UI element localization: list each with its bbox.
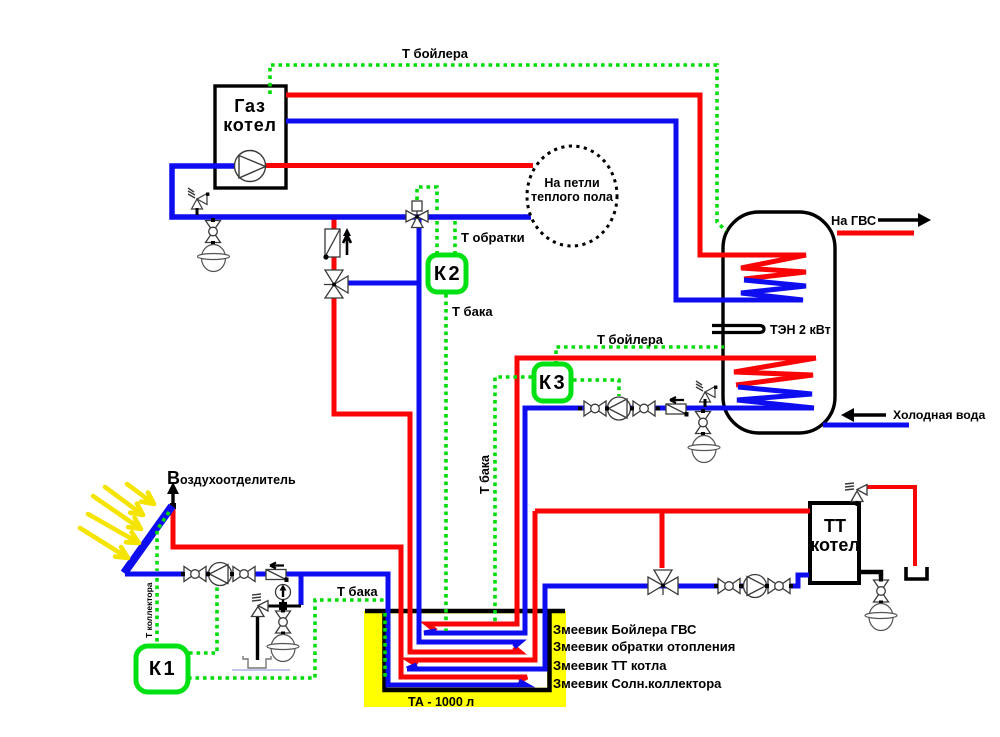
wire: TA coil 3 blue return up to TT boiler xyxy=(407,575,809,669)
wire: TT supply branch to 3-way valve xyxy=(660,511,665,568)
wire: DHW tank lower coil zigzag red xyxy=(734,358,816,385)
drain bracket near TT boiler xyxy=(906,567,927,579)
wire: tee down to solar safety group xyxy=(299,574,304,605)
svg-text:Т бака: Т бака xyxy=(337,584,378,599)
svg-text:Т бака: Т бака xyxy=(478,454,492,494)
sensor wire: K1 to TA tank (T baka) xyxy=(188,600,384,678)
wire: gas boiler heating supply (pump outlet) to floor-loops circle xyxy=(264,163,533,168)
svg-text:Газ: Газ xyxy=(234,96,266,116)
TA tank walls xyxy=(365,611,565,690)
svg-text:Змеевик Бойлера ГВС: Змеевик Бойлера ГВС xyxy=(553,622,697,637)
sensor wire: K2 to TA tank (T baka) xyxy=(444,294,448,621)
wire: TT supply down to TA coil 3 xyxy=(409,511,535,665)
svg-text:ТТ: ТТ xyxy=(824,516,846,536)
TA tank interior white xyxy=(387,614,547,688)
svg-text:котел: котел xyxy=(223,115,277,135)
TT boiler box xyxy=(810,503,859,583)
svg-text:Змеевик Солн.коллектора: Змеевик Солн.коллектора xyxy=(553,676,722,691)
svg-text:Змеевик ТТ котла: Змеевик ТТ котла xyxy=(553,658,667,673)
svg-text:На ГВС: На ГВС xyxy=(831,213,876,228)
svg-text:Т бака: Т бака xyxy=(452,304,493,319)
controller K3 xyxy=(534,364,571,401)
solar safety group: manometer xyxy=(268,585,301,611)
sun ray arrows xyxy=(80,484,154,558)
solar drain valve and expansion vessel EV2 xyxy=(276,609,291,636)
gate valve, TT pump P4, gate valve on TT return xyxy=(718,579,740,594)
wire: solar collector supply down to TA coil 4 xyxy=(173,507,527,681)
sensor wire: K3 left to TA tank (T baka) xyxy=(495,377,532,625)
sensor wire: T baka probe inside TA tank left wall xyxy=(383,613,387,677)
wire: solar return from collector through pump group to TA coil 4 xyxy=(125,574,526,685)
pump P1 inside gas boiler xyxy=(235,151,266,182)
sensor wire: T obratki pipe sensor to K2 xyxy=(453,221,457,254)
junction dots xyxy=(181,407,793,589)
TA buffer tank yellow body xyxy=(364,611,566,707)
wire: DHW tank lower coil supply down to TA coil 1 (red) xyxy=(427,358,816,631)
solar collector panel xyxy=(124,506,172,573)
wire: TA coil 3 zig xyxy=(407,665,417,669)
svg-text:котел: котел xyxy=(810,535,860,555)
sensor wire: K1 to solar pump xyxy=(189,586,217,653)
svg-text:Холодная вода: Холодная вода xyxy=(893,408,985,422)
DHW boiler tank xyxy=(723,212,835,433)
drain valve and expansion vessel EV1 below gas line xyxy=(206,218,221,245)
wire: tee to left 3-way valve xyxy=(347,281,419,286)
svg-text:К3: К3 xyxy=(539,372,567,394)
wire: heating main return line circle to gas boiler pump xyxy=(172,166,531,217)
TT boiler drain pipe to expansion vessel xyxy=(859,572,881,579)
mixing valve V1 on heating return (with actuator) xyxy=(406,201,428,228)
controller K2 xyxy=(428,255,466,292)
gas boiler Gaz kotel box xyxy=(215,86,286,188)
wire: DHW outlet (to GVS) xyxy=(837,231,914,236)
safety valve SV1 on gas boiler return xyxy=(188,188,209,209)
floor heating loops dotted circle xyxy=(527,146,617,246)
gate valve, boiler charge pump P3, gate valve, check valve on DHW coil line xyxy=(584,401,606,416)
sensor wire: K2 to mixing valve actuator xyxy=(417,187,437,212)
svg-text:ТЭН 2 кВт: ТЭН 2 кВт xyxy=(770,323,831,337)
filter/check valve on red drop xyxy=(323,228,351,260)
svg-text:Т коллектора: Т коллектора xyxy=(144,582,154,638)
svg-text:Т бойлера: Т бойлера xyxy=(597,332,664,347)
wire: DHW lower coil return through pump group down to TA coil 1 xyxy=(424,408,814,633)
3-way valve V3 on TT boiler return xyxy=(648,570,678,595)
svg-text:Т обратки: Т обратки xyxy=(461,230,525,245)
air separator arrow (Vozduhootdelitel) xyxy=(171,492,174,505)
controller K1 xyxy=(136,646,188,692)
svg-text:Т бойлера: Т бойлера xyxy=(402,46,469,61)
wire: branch from mixing valve down to TA coil 2 (blue supply) xyxy=(419,216,520,647)
sensor wire: collector sensor to K1 xyxy=(157,512,169,571)
wire: heating return leg through filter and 3-way valve down to TA coil 2 xyxy=(332,216,337,272)
svg-text:ТА - 1000 л: ТА - 1000 л xyxy=(408,695,474,709)
svg-text:К2: К2 xyxy=(434,263,462,285)
wire: gas boiler DHW supply to tank top coil xyxy=(286,95,806,279)
sensor wire: T boilera from gas boiler top to DHW tank xyxy=(270,65,726,231)
arrow: Na GVS xyxy=(878,218,920,222)
sensor wire: K3 to DHW tank (T boilera) xyxy=(554,361,558,363)
drain funnel under solar safety valve xyxy=(232,656,290,670)
wire: TT boiler safety relief to drain xyxy=(867,487,915,566)
wire: TT boiler supply line xyxy=(535,509,810,514)
heater element TEN 2kVt xyxy=(712,326,764,333)
drain valve and expansion vessel EV3 below DHW coil line xyxy=(696,409,711,436)
3-way mixing valve V2 (heating return to TA) xyxy=(324,270,348,298)
TT drain valve and expansion vessel EV4 xyxy=(874,578,889,605)
wire: DHW tank lower coil zigzag blue xyxy=(737,387,814,408)
wire: cold water inlet xyxy=(823,423,909,428)
safety valve SV3 near DHW tank xyxy=(696,381,717,402)
svg-text:На петли: На петли xyxy=(544,176,599,190)
arrow: cold water xyxy=(852,413,886,417)
sensor wire: K3 to boiler charge pump xyxy=(573,380,619,396)
svg-text:теплого пола: теплого пола xyxy=(531,190,614,204)
wire: DHW tank top coil zigzag blue return to gas boiler xyxy=(286,121,806,300)
gate valve, solar pump P2, gate valve, check valve on solar return xyxy=(184,567,206,582)
svg-text:К1: К1 xyxy=(149,658,177,680)
safety valve SV4 on TT boiler top xyxy=(845,483,867,506)
solar safety valve SV2 xyxy=(252,594,269,660)
svg-text:Змеевик обратки отопления: Змеевик обратки отопления xyxy=(553,639,735,654)
